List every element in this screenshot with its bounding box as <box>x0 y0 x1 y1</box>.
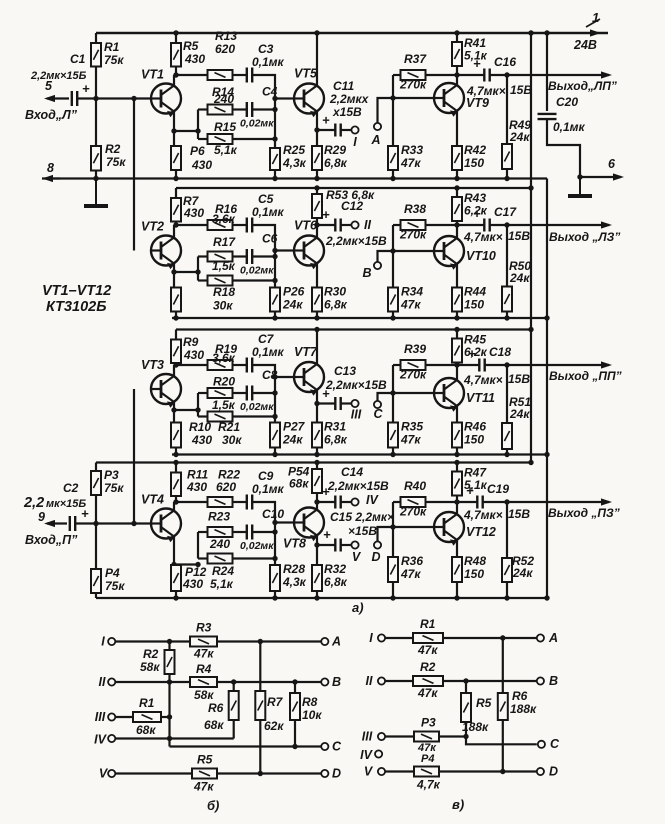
wire R2 to B (v) <box>443 680 537 682</box>
svg-text:С: С <box>373 407 383 421</box>
svg-text:+: + <box>468 346 476 361</box>
junction bus R51 <box>504 452 509 457</box>
resistor R19 <box>208 360 233 370</box>
svg-text:58к: 58к <box>140 660 160 674</box>
resistor R5 <box>171 43 181 67</box>
wire R2 top (b) <box>168 642 170 651</box>
resistor R40 <box>401 497 426 507</box>
junction bus R9 column <box>173 452 178 457</box>
wire rail4 to R3 <box>95 463 97 472</box>
wire ground bus row2 <box>172 317 547 319</box>
resistor R11 <box>171 473 181 497</box>
svg-text:С20: С20 <box>556 95 578 109</box>
capacitor С4 <box>247 102 252 117</box>
svg-text:VT10: VT10 <box>466 249 496 263</box>
transistor VT3 <box>151 374 181 408</box>
capacitor С16 <box>484 69 489 82</box>
resistor R7 <box>171 198 181 222</box>
junction rail R11 <box>173 460 178 465</box>
terminal D (v) <box>537 768 544 775</box>
resistor R1 (v) <box>413 633 443 643</box>
transistor VT12 <box>434 512 464 546</box>
wire VT6 emitter to R30 <box>316 264 318 288</box>
junction rail4 R54 <box>314 460 319 465</box>
svg-text:R17: R17 <box>213 235 236 249</box>
svg-text:а): а) <box>352 600 364 615</box>
terminal II <box>351 221 358 228</box>
wire R31 to bus <box>316 448 318 455</box>
wire mid column <box>274 251 276 281</box>
resistor R1 <box>91 43 101 67</box>
svg-text:Р26: Р26 <box>283 285 305 299</box>
wire R43 to out node <box>456 221 458 225</box>
junction rail VT5 collector <box>314 30 319 35</box>
wire +24V vertical feed <box>530 33 532 463</box>
terminal В <box>374 262 381 269</box>
junction III column (b) <box>167 714 172 719</box>
junction I/R6 (v) <box>500 635 505 640</box>
svg-text:С13: С13 <box>334 364 356 378</box>
svg-text:R31: R31 <box>324 420 346 434</box>
wire R44 to bus <box>456 312 458 319</box>
wire R40 right <box>426 501 458 503</box>
svg-text:VT3: VT3 <box>141 358 164 372</box>
wire emitter node to R31 <box>316 404 318 423</box>
resistor R22 <box>208 497 233 507</box>
resistor R36 <box>388 557 398 582</box>
svg-text:270к: 270к <box>399 78 427 92</box>
svg-text:КТ3102Б: КТ3102Б <box>46 299 106 315</box>
wire VT7 collector to rail <box>316 330 318 365</box>
wire lower resistor to bus <box>175 312 177 319</box>
junction bus R42 <box>454 176 459 181</box>
junction mid column base VT7 <box>272 374 277 379</box>
wire line II (v) <box>385 680 413 682</box>
wire С15 to terminal V <box>341 544 352 546</box>
junction mid column R24 <box>272 556 277 561</box>
wire mid column to Р26 <box>274 281 276 288</box>
junction collector node VT4 <box>173 499 178 504</box>
junction mid column С8 <box>272 390 277 395</box>
svg-text:VT1: VT1 <box>141 68 164 82</box>
wire line IV (b) <box>115 737 233 739</box>
svg-text:5,1к: 5,1к <box>210 577 234 591</box>
wire R17 to С6 <box>233 255 247 257</box>
wire R3 to A (b) <box>217 640 321 642</box>
svg-text:R25: R25 <box>283 143 305 157</box>
svg-text:4,7мк×: 4,7мк× <box>463 230 503 244</box>
wire R23 line <box>198 531 208 533</box>
resistor R6 (b) <box>229 691 239 720</box>
wire bus 8 arrow <box>42 175 60 182</box>
svg-text:+: + <box>323 527 331 542</box>
resistor R13 <box>208 70 233 80</box>
capacitor С3 <box>247 68 252 83</box>
junction emitter node VT4 <box>171 562 176 567</box>
wire R7 to collector node <box>175 222 177 226</box>
wire base column VT10 <box>392 225 394 251</box>
svg-text:I: I <box>369 631 373 645</box>
resistor R10 <box>171 423 181 448</box>
junction rail R47 <box>454 460 459 465</box>
wire R6 bottom (v) <box>502 720 504 772</box>
svg-text:+: + <box>81 506 89 521</box>
capacitor С15 <box>335 539 340 552</box>
wire R23 to С10 <box>233 531 247 533</box>
junction net column VT1 <box>195 128 200 133</box>
svg-text:VT1–VT12: VT1–VT12 <box>42 283 111 299</box>
junction emitter out node VT5 <box>314 127 319 132</box>
resistor R33 <box>388 146 398 170</box>
svg-text:75к: 75к <box>106 155 126 169</box>
junction bus R7 column <box>173 315 178 320</box>
wire R15 to mid column <box>233 138 276 140</box>
svg-text:240: 240 <box>209 537 230 551</box>
wire line I (b) <box>115 640 190 642</box>
svg-text:R48: R48 <box>464 554 486 568</box>
wire VT12 emitter <box>456 540 458 557</box>
wire R36 to bus <box>392 582 394 598</box>
terminal V <box>351 541 358 548</box>
svg-text:6: 6 <box>608 157 616 171</box>
wire R42 to bus <box>456 170 458 179</box>
junction out node VT9 <box>454 72 459 77</box>
capacitor C1 <box>72 91 77 106</box>
wire mid column <box>274 99 276 140</box>
wire С13 to terminal <box>341 402 352 404</box>
svg-text:VT5: VT5 <box>294 67 318 81</box>
svg-text:0,1мк: 0,1мк <box>252 205 285 219</box>
svg-text:D: D <box>371 550 380 564</box>
junction II/R6 (b) <box>231 679 236 684</box>
svg-text:R29: R29 <box>324 143 346 157</box>
capacitor С17 <box>484 219 489 232</box>
wire R4 to B (b) <box>217 681 321 683</box>
svg-text:0,1мк: 0,1мк <box>553 120 586 134</box>
wire R34 to bus <box>392 312 394 319</box>
junction mid column С10 <box>272 529 277 534</box>
svg-text:9: 9 <box>38 510 45 524</box>
svg-text:2,2: 2,2 <box>23 495 44 511</box>
junction load node R50 <box>504 222 509 227</box>
resistor R44 <box>452 288 462 312</box>
svg-text:430: 430 <box>191 158 212 172</box>
wire R54 to collector node <box>316 493 318 502</box>
wire С3 to mid column <box>252 75 275 99</box>
wire VT3 collector <box>173 365 175 376</box>
wire R30 to bus <box>316 312 318 319</box>
svg-text:0,02мк: 0,02мк <box>240 118 274 130</box>
svg-text:15В: 15В <box>508 229 530 243</box>
svg-text:430: 430 <box>186 480 207 494</box>
wire R8 top (b) <box>294 682 296 693</box>
ground right <box>568 177 592 196</box>
capacitor С8 <box>247 386 252 401</box>
svg-text:А: А <box>331 635 341 649</box>
transistor VT2 <box>151 236 181 270</box>
junction bus R36 <box>390 595 395 600</box>
resistor R54 <box>312 469 322 493</box>
svg-text:R36: R36 <box>401 554 423 568</box>
resistor R35 <box>388 423 398 448</box>
junction net column VT2 <box>195 269 200 274</box>
wire R20 line <box>198 392 208 394</box>
wire С5 to mid column <box>252 225 275 251</box>
capacitor C2 <box>70 516 75 531</box>
svg-text:IV: IV <box>360 748 373 762</box>
junction base VT9 <box>390 95 395 100</box>
resistor R51 <box>502 423 512 449</box>
terminal D (b) <box>321 770 328 777</box>
junction bus R31 <box>314 452 319 457</box>
resistor R41 <box>452 42 462 66</box>
svg-text:188к: 188к <box>510 702 537 716</box>
svg-text:0,02мк: 0,02мк <box>240 540 274 552</box>
terminal III (b) <box>108 713 115 720</box>
junction I/R7 (b) <box>258 639 263 644</box>
svg-text:С18: С18 <box>489 345 511 359</box>
wire VT6 collector <box>316 225 318 238</box>
junction out node VT11 <box>454 362 459 367</box>
junction II/R5 (v) <box>463 678 468 683</box>
wire R21 to mid column <box>233 415 276 417</box>
junction load node R52 <box>504 499 509 504</box>
svg-text:150: 150 <box>464 567 484 581</box>
junction mid column R21 <box>272 414 277 419</box>
wire rail to R1 <box>95 33 97 43</box>
svg-text:2,2мк×15В: 2,2мк×15В <box>327 479 389 493</box>
svg-text:24к: 24к <box>282 433 303 447</box>
wire VT11 collector <box>456 365 458 380</box>
svg-text:R8: R8 <box>302 695 318 709</box>
resistor R50 <box>502 287 512 312</box>
svg-text:430: 430 <box>182 577 203 591</box>
wire VT5 collector to rail <box>316 33 318 86</box>
junction R2 bus <box>93 176 98 181</box>
svg-text:0,1мк: 0,1мк <box>252 345 285 359</box>
junction I/R2 (b) <box>167 639 172 644</box>
junction bus R34 <box>390 315 395 320</box>
wire R3 to base node <box>95 495 97 524</box>
svg-text:6,8к: 6,8к <box>324 433 348 447</box>
wire base node to R4 <box>95 524 97 570</box>
svg-text:24В: 24В <box>573 38 597 52</box>
svg-text:620: 620 <box>216 480 236 494</box>
wire R1 to column (b) <box>161 716 170 718</box>
junction input row1 <box>93 96 98 101</box>
svg-text:R32: R32 <box>324 562 346 576</box>
wire C1 to base node <box>77 97 152 99</box>
wire load node to R50 <box>506 225 508 287</box>
terminal A (v) <box>537 634 544 641</box>
svg-text:430: 430 <box>184 52 205 66</box>
svg-text:VT11: VT11 <box>466 391 495 405</box>
svg-text:R5: R5 <box>183 39 199 53</box>
resistor R48 <box>452 557 462 582</box>
wire rail to R45 <box>456 330 458 339</box>
wire input 9 <box>44 520 67 527</box>
wire output row4 <box>507 498 612 505</box>
resistor R3 (v) <box>414 732 439 742</box>
wire lower resistor to bus <box>175 448 177 455</box>
svg-text:24к: 24к <box>509 407 530 421</box>
wire VT9 collector <box>456 75 458 85</box>
wire out node to С17 <box>457 224 484 226</box>
wire ground bus row4 <box>96 597 547 599</box>
wire R6 top (b) <box>233 682 235 691</box>
wire VT4 emitter <box>173 537 175 565</box>
svg-text:R30: R30 <box>324 285 346 299</box>
svg-text:R35: R35 <box>401 420 423 434</box>
svg-text:+: + <box>466 483 474 498</box>
svg-text:В: В <box>332 675 341 689</box>
wire C20 feed from +24 rail <box>546 33 548 111</box>
transistor VT10 <box>434 236 464 270</box>
junction bus R44 <box>454 315 459 320</box>
svg-text:С2: С2 <box>63 481 79 495</box>
resistor R6 (v) <box>498 693 508 720</box>
wire line III (v) <box>385 735 414 737</box>
svg-text:R9: R9 <box>183 335 199 349</box>
wire collector node to R13 <box>176 74 208 76</box>
svg-text:R6: R6 <box>512 689 528 703</box>
junction bus R49 <box>504 176 509 181</box>
svg-text:Вход„Л”: Вход„Л” <box>25 108 78 122</box>
wire emitter node to net <box>174 271 198 273</box>
svg-text:С16: С16 <box>494 55 516 69</box>
transistor VT7 <box>294 362 324 396</box>
svg-text:R4: R4 <box>196 662 212 676</box>
svg-text:С12: С12 <box>341 199 363 213</box>
wire collector node to R19 <box>176 364 208 366</box>
svg-text:15В: 15В <box>510 83 532 97</box>
svg-text:24к: 24к <box>509 271 530 285</box>
transistor VT6 <box>294 236 324 270</box>
svg-text:I: I <box>101 635 105 649</box>
wire terminal 6 line <box>580 173 624 180</box>
wire base of VT5 <box>275 97 294 99</box>
wire tick of node 1 <box>586 19 600 27</box>
wire load node to R49 <box>506 75 508 144</box>
wire terminal С stub <box>378 393 394 405</box>
svg-text:С6: С6 <box>262 232 278 246</box>
wire R46 to bus <box>456 448 458 455</box>
wire emitter to lower resistor <box>173 131 175 146</box>
svg-text:430: 430 <box>191 433 212 447</box>
capacitor С10 <box>247 525 252 540</box>
svg-text:III: III <box>351 408 362 422</box>
wire base of VT10 <box>393 250 434 252</box>
svg-text:VT7: VT7 <box>294 345 318 359</box>
svg-text:2,2мкх: 2,2мкх <box>329 92 370 106</box>
svg-text:Выход„ЛП”: Выход„ЛП” <box>548 79 617 93</box>
wire С4 to mid column <box>252 108 275 110</box>
svg-text:VT9: VT9 <box>466 96 489 110</box>
junction emitter out node VT7 <box>314 401 319 406</box>
svg-text:75к: 75к <box>104 53 124 67</box>
svg-text:4,7к: 4,7к <box>416 778 441 792</box>
wire R2 bottom (b) <box>168 674 170 682</box>
svg-text:б): б) <box>207 798 219 813</box>
wire R45 to out node <box>456 363 458 366</box>
wire rail to R11 <box>175 463 177 473</box>
resistor R4 <box>91 569 101 593</box>
resistor R2 (b) <box>165 650 175 674</box>
terminal A <box>374 123 381 130</box>
junction V/R6 (v) <box>500 769 505 774</box>
wire input link rows 3-4 <box>133 389 135 524</box>
svg-text:Выход „ПП”: Выход „ПП” <box>549 369 622 383</box>
wire out node to С18 <box>457 364 479 366</box>
wire net vertical <box>197 393 199 417</box>
svg-text:R3: R3 <box>196 621 212 635</box>
svg-text:R6: R6 <box>208 701 224 715</box>
svg-text:47к: 47к <box>400 298 421 312</box>
resistor R38 <box>401 220 426 230</box>
junction collector node VT3 <box>173 362 178 367</box>
junction out node VT10 <box>454 222 459 227</box>
terminal V (b) <box>108 770 115 777</box>
wire mid column to Р27 <box>274 417 276 423</box>
svg-text:IV: IV <box>366 493 379 507</box>
terminal I (b) <box>108 638 115 645</box>
svg-text:+: + <box>473 56 481 71</box>
wire R5 to D (b) <box>217 772 321 774</box>
capacitor С12 <box>335 219 340 232</box>
svg-text:С19: С19 <box>487 482 509 496</box>
svg-text:R38: R38 <box>404 202 426 216</box>
svg-text:Выход „ПЗ”: Выход „ПЗ” <box>548 506 620 520</box>
resistor R25 <box>270 148 280 170</box>
wire R4 to D (v) <box>439 770 537 772</box>
wire emitter node to net <box>174 409 198 411</box>
junction mid column С4 <box>272 107 277 112</box>
junction III/R5 (v) <box>463 734 468 739</box>
wire collector node to С12 <box>317 224 335 226</box>
svg-text:30к: 30к <box>222 433 242 447</box>
svg-text:×15В: ×15В <box>348 524 377 538</box>
wire VT8 collector <box>316 502 318 510</box>
wire C2 to base node <box>75 522 152 524</box>
svg-text:VT8: VT8 <box>283 537 306 551</box>
wire VT4 collector <box>173 502 175 511</box>
svg-text:R2: R2 <box>420 660 436 674</box>
svg-text:R37: R37 <box>404 52 427 66</box>
wire rail to R47 <box>456 463 458 472</box>
resistor R5 (b) <box>192 769 217 779</box>
svg-text:С7: С7 <box>258 332 275 346</box>
resistor R3 (b) <box>190 637 217 647</box>
wire R1 to base node <box>95 67 97 99</box>
wire +24V rail row4 <box>96 461 531 463</box>
capacitor С7 <box>247 358 252 373</box>
junction base VT10 <box>390 248 395 253</box>
svg-text:150: 150 <box>464 433 484 447</box>
svg-text:Р3: Р3 <box>421 716 436 730</box>
svg-text:II: II <box>99 675 106 689</box>
svg-text:2,2мк×15Б: 2,2мк×15Б <box>30 70 87 82</box>
wire R50 to bus <box>506 312 508 319</box>
wire С8 to mid column <box>252 392 275 394</box>
svg-text:III: III <box>362 730 373 744</box>
resistor R7 (b) <box>255 691 265 720</box>
svg-text:2,2мк×15В: 2,2мк×15В <box>325 378 387 392</box>
terminal I <box>351 126 358 133</box>
svg-text:0,1мк: 0,1мк <box>252 482 285 496</box>
junction bus R11 column <box>173 595 178 600</box>
wire load node to R52 <box>506 502 508 558</box>
wire line II (b) <box>115 681 190 683</box>
